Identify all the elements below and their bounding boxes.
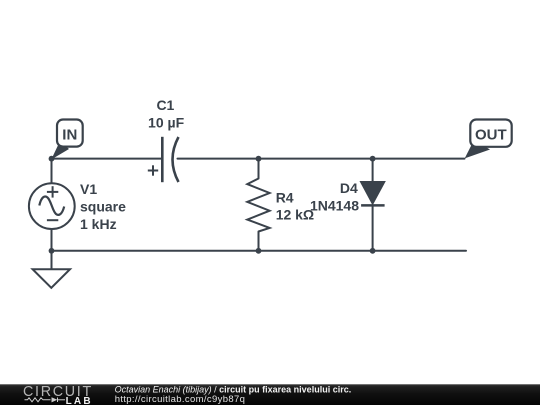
wire ground lead: [51, 251, 53, 269]
label D4 value: [310, 180, 359, 213]
resistor R4: [247, 179, 269, 232]
junction node V1 bottom: [49, 248, 55, 254]
svg-text:LAB: LAB: [66, 396, 93, 405]
label V1 value: [80, 181, 126, 232]
junction node D4 bottom: [370, 248, 376, 254]
logo CircuitLab: [23, 384, 93, 407]
svg-text:IN: IN: [62, 126, 77, 143]
wire D4 top: [372, 159, 374, 182]
wire V1 bottom: [51, 229, 53, 251]
net flag IN: [51, 120, 82, 160]
diode D4: [360, 182, 385, 206]
svg-text:square: square: [80, 199, 126, 215]
junction node IN: [49, 156, 55, 162]
voltage source V1: [29, 183, 75, 229]
label C1 value: [148, 97, 185, 130]
capacitor C1: [148, 137, 179, 182]
svg-text:1N4148: 1N4148: [310, 197, 359, 213]
junction node R4 bottom: [256, 248, 262, 254]
svg-text:Octavian Enachi (tibijay) / ci: Octavian Enachi (tibijay) / circuit pu f…: [115, 384, 352, 394]
svg-text:http://circuitlab.com/c9yb87q: http://circuitlab.com/c9yb87q: [115, 394, 246, 405]
svg-text:R4: R4: [276, 189, 294, 205]
label R4 value: [276, 189, 314, 222]
svg-text:D4: D4: [340, 180, 358, 196]
svg-text:V1: V1: [80, 181, 97, 197]
net flag OUT: [465, 120, 512, 159]
wire V1 top: [51, 159, 53, 184]
svg-text:OUT: OUT: [475, 126, 507, 143]
svg-text:10 µF: 10 µF: [148, 114, 185, 130]
svg-text:12 kΩ: 12 kΩ: [276, 207, 314, 223]
wire R4 bottom: [258, 232, 260, 251]
ground: [33, 269, 70, 288]
svg-text:C1: C1: [156, 97, 174, 113]
wire top rail right of C1: [178, 158, 465, 160]
wire top rail: [52, 158, 162, 160]
svg-text:1 kHz: 1 kHz: [80, 216, 117, 232]
junction node R4 top: [256, 156, 262, 162]
wire bottom rail: [52, 250, 467, 252]
junction node D4 top: [370, 156, 376, 162]
wire D4 bottom: [372, 205, 374, 250]
wire R4 top: [258, 159, 260, 179]
